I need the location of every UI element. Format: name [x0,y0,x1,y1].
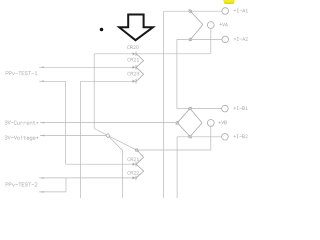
node circle CR21 bottom [135,149,138,152]
slash through node A bottom [189,38,192,42]
diode bar CR21 [135,65,137,70]
label PPv-TEST-2 [6,183,37,186]
wire diagonal junction to test circle [108,136,139,152]
label 3V-Current [5,121,38,124]
label 3V-Voltage [5,136,38,140]
wire vertical x=176.9 A2 to B top [176,39,178,108]
label +VB [219,121,227,124]
wire +VB vertical [210,126,212,150]
label +I-B2 [234,135,248,138]
terminal +I-B2 [222,134,229,141]
signal arrow 3V-Voltage [40,135,45,137]
diode CR22 bottom chevron [136,164,143,178]
wire net +I-A1 top horizontal [164,10,222,12]
node circle B bottom [189,135,192,138]
label CR21 [128,58,139,61]
diode tick CR23 [133,80,136,83]
wire CR21 bottom lead y=164.4 [66,163,137,165]
diode bar CR21 bottom [135,162,137,167]
test switch A lower diagonal [191,25,203,40]
junction diamond node [106,134,110,138]
label +I-B1 [234,107,248,110]
diode bar CR20 [135,52,137,57]
diode tick CR21 bottom [133,163,136,166]
wire 3V-Voltage y=135.5 [40,135,106,137]
signal arrow PPv-TEST-1 a [39,66,44,68]
wire PPv-TEST-1 lower y=81.3 [39,80,65,82]
terminal +VA [207,22,214,29]
label CR22 bottom [128,171,139,174]
diode tick CR21 [133,66,136,69]
bridge B top-right diagonal [190,109,202,123]
wire 3V-Current y=122.6 [40,122,176,124]
wire CR23 lead y=81.3 [81,80,137,82]
wire net +I-B2 horizontal [177,136,222,138]
wire PPv-TEST-1 upper y=67.3 [39,66,136,68]
test switch A upper diagonal [190,11,203,24]
diode CR23 chevron [136,67,143,81]
wire vertical x=177.1 B bottom [176,137,178,198]
diode tick CR22 bottom [133,176,136,179]
label +I-A2 [234,37,248,40]
wire net +I-A2 horizontal [177,38,222,40]
label +I-A1 [234,9,248,12]
label +VA [219,23,227,26]
label CR21 bottom [128,158,139,161]
label PPv-TEST-1 [6,72,37,75]
diode tick CR20 [133,52,136,55]
wire vertical x=65.1 [65,81,67,164]
bridge B top-left diagonal [177,109,190,123]
cursor dot [100,28,104,32]
wire vertical x=163.6 [163,11,165,198]
node circle A top [189,10,192,13]
signal arrow PPv-TEST-2 a [39,177,44,179]
slash through node B bottom [188,135,191,139]
terminal +I-B1 [222,105,229,112]
wire vertical x=94.2 [93,54,95,129]
signal arrow PPv-TEST-2 b [39,191,44,193]
node circle A bottom [189,38,192,41]
wire +VA vertical [210,28,212,53]
slash through node CR21 bottom [135,149,139,151]
slash through node B left [176,121,179,125]
wire B top feed horizontal [177,108,190,110]
wire PPv-TEST-2 lower y=191.5 [39,191,66,193]
node circle B top [189,107,192,110]
label CR20 [127,46,138,49]
node circle B left [176,122,179,125]
wire diagonal junction to vertical [108,136,123,151]
diode bar CR22 bottom [135,176,137,181]
wire +VA horizontal y=53.8 [94,53,211,55]
terminal +VB [207,120,214,127]
slash through node A top [189,9,192,13]
terminal +I-A2 [222,36,229,43]
label CR23 [128,72,139,75]
terminal +I-A1 [222,8,229,15]
wire vertical x=66 PPv2 link [65,178,67,192]
wire +VB horizontal y=150 [137,149,211,151]
slash through node B top [188,107,191,111]
bridge B bottom-right diagonal [190,123,202,137]
highlight marker yellow [223,0,234,3]
diode CR21 chevron [136,54,143,68]
wire vertical x=80.3 [80,81,82,198]
wire net +I-B1 horizontal [190,108,222,110]
diode bar CR23 [135,79,137,84]
signal arrow 3V-Current [40,122,45,124]
bridge B bottom-left diagonal [177,123,190,137]
wire diagonal to junction [94,129,108,136]
selection arrow cursor [119,15,153,41]
wire PPv-TEST-2 upper y=178.6 [39,177,136,179]
diode CR21 bottom chevron [136,151,143,165]
signal arrow PPv-TEST-1 b [39,80,44,82]
wire vertical x=122.6 [122,151,124,198]
